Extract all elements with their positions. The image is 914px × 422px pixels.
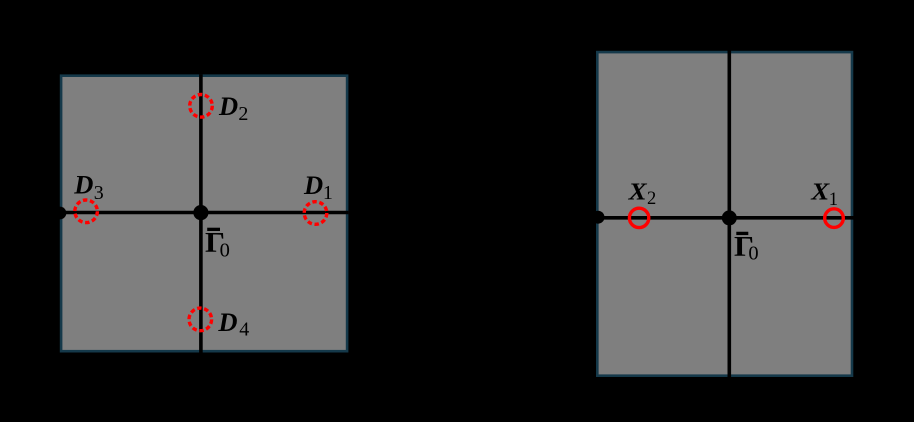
node: left square center dot (Gamma-bar-0) <box>193 205 208 220</box>
svg-text:2: 2 <box>238 103 248 125</box>
svg-text:4: 4 <box>239 318 249 340</box>
svg-text:1: 1 <box>829 190 838 210</box>
right Brillouin-zone rectangle <box>597 52 852 376</box>
label D2 <box>218 91 248 125</box>
wire: right rect vertical axis line <box>727 46 731 381</box>
left Brillouin-zone square <box>61 76 347 352</box>
svg-text:D: D <box>73 170 93 200</box>
wire: left square vertical axis line <box>199 74 203 352</box>
wire: right rect horizontal axis line <box>592 216 857 220</box>
label X1 <box>810 178 838 210</box>
svg-text:3: 3 <box>94 182 104 204</box>
label D1 <box>303 170 333 204</box>
node D4: dashed red circle <box>189 308 212 331</box>
svg-text:D: D <box>218 91 238 121</box>
label D3 <box>73 170 104 205</box>
node: right rect left-edge dot <box>592 211 605 224</box>
svg-text:0: 0 <box>220 240 230 262</box>
label Gamma-bar-0 (right) <box>734 231 759 264</box>
node D1: dashed red circle <box>304 202 327 225</box>
label Gamma-bar-0 (left) <box>205 227 230 262</box>
node: right rect center dot (Gamma-bar-0) <box>722 210 737 225</box>
label X2 <box>627 178 656 208</box>
svg-text:D: D <box>303 170 323 200</box>
svg-text:0: 0 <box>748 243 758 265</box>
node X2: solid red circle <box>629 208 648 227</box>
svg-text:2: 2 <box>647 189 656 209</box>
svg-text:X: X <box>810 178 830 205</box>
svg-text:1: 1 <box>323 182 333 204</box>
node D3: dashed red circle <box>75 200 98 223</box>
node D2: dashed red circle <box>190 95 213 118</box>
label D4 <box>217 307 249 341</box>
wire: left square horizontal axis line <box>54 211 348 215</box>
svg-text:D: D <box>217 307 237 337</box>
node: left square left-edge dot <box>54 207 67 220</box>
node X1: solid red circle <box>825 209 844 228</box>
svg-text:X: X <box>627 178 647 205</box>
